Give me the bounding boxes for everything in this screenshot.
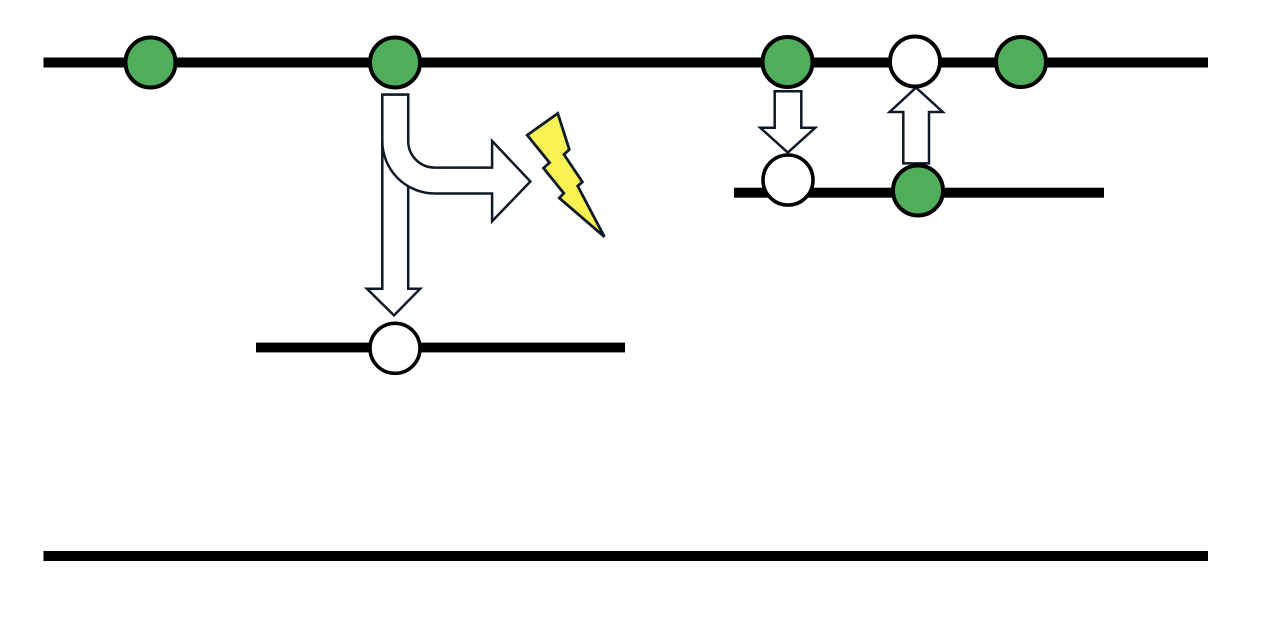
bent branch arrow (energy release)	[382, 95, 530, 222]
hole h2 (white, left trap level)	[370, 323, 420, 373]
electron e1 (green, top line far left)	[126, 38, 176, 88]
big down arrow (relaxation to trap)	[367, 95, 420, 316]
hole h1 (white, top line right)	[890, 37, 940, 87]
hole h3 (white, right trap level, raised)	[763, 155, 813, 205]
electron e2 (green, top line, source of big arrow)	[370, 38, 420, 88]
small down arrow (electron capture, right)	[760, 91, 815, 152]
up arrow (electron emission, right)	[890, 88, 943, 164]
trap level line (left)	[256, 343, 625, 353]
trap level line (right)	[734, 188, 1104, 198]
valence band line (bottom)	[44, 551, 1209, 561]
conduction band line (top)	[44, 58, 1209, 68]
electron e4 (green, top line far right)	[996, 37, 1046, 87]
photon lightning bolt	[527, 113, 604, 236]
electron e3 (green, top line right)	[763, 37, 813, 87]
electron e5 (green, right trap level)	[893, 166, 943, 216]
